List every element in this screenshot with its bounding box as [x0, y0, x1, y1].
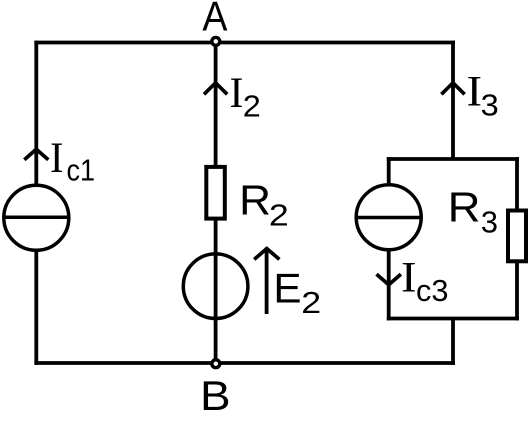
svg-text:3: 3 — [481, 206, 498, 240]
svg-text:I: I — [401, 255, 417, 302]
svg-text:2: 2 — [269, 199, 289, 233]
svg-text:c1: c1 — [66, 154, 94, 188]
svg-text:A: A — [202, 0, 227, 40]
svg-text:R: R — [239, 176, 271, 223]
svg-text:I: I — [50, 135, 63, 182]
svg-text:E: E — [273, 264, 301, 311]
svg-text:I: I — [230, 70, 244, 117]
svg-text:2: 2 — [243, 90, 261, 124]
svg-text:R: R — [448, 183, 481, 230]
svg-text:3: 3 — [481, 89, 499, 123]
svg-text:B: B — [200, 372, 231, 417]
svg-text:c3: c3 — [416, 274, 449, 308]
svg-text:2: 2 — [301, 286, 321, 320]
